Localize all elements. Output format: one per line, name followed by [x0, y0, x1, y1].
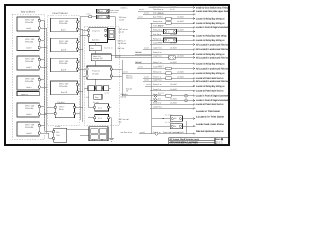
junction M5b	[102, 88, 103, 89]
inverter box M4	[86, 66, 113, 79]
svg-text:14 AWG: 14 AWG	[170, 42, 177, 45]
svg-text:Panel 1 w: Panel 1 w	[153, 75, 162, 78]
svg-text:Located in Trim basin: Located in Trim basin	[196, 115, 225, 118]
svg-text:Locate at Panel main feed xx: Locate at Panel main feed xx	[196, 90, 224, 93]
svg-text:12 AWG: 12 AWG	[170, 101, 177, 104]
drawing border frame	[5, 5, 229, 145]
svg-text:xx cbl: xx cbl	[144, 46, 149, 49]
svg-text:SPSa 80L: SPSa 80L	[25, 126, 34, 129]
wire A6+	[41, 125, 45, 127]
box M3	[91, 54, 111, 61]
svg-text:xx cbl: xx cbl	[140, 131, 145, 134]
svg-text:SBT cbl: SBT cbl	[135, 51, 142, 54]
svg-text:Dist: Dist	[91, 47, 95, 50]
svg-text:Locate in Relay Bay string xx: Locate in Relay Bay string xx	[196, 63, 225, 66]
svg-text:Locate in Trim basin: Locate in Trim basin	[196, 110, 221, 113]
svg-text:Inverter 100: Inverter 100	[93, 57, 103, 60]
svg-text:10 AWG: 10 AWG	[170, 83, 177, 86]
wire row R8	[150, 33, 227, 38]
svg-text:xx cbl: xx cbl	[144, 75, 149, 78]
terminal strip M7	[89, 127, 108, 141]
svg-text:SPSa 80L: SPSa 80L	[59, 22, 68, 25]
svg-text:Relay 6 w: Relay 6 w	[153, 37, 162, 40]
svg-text:SPSa 80L: SPSa 80L	[59, 62, 68, 65]
svg-text:SPSa 80L: SPSa 80L	[25, 80, 34, 83]
svg-text:14 AWG: 14 AWG	[177, 20, 184, 23]
relay box K1	[94, 104, 110, 111]
wire ground drop	[111, 118, 113, 138]
svg-text:Cowl F6 w: Cowl F6 w	[153, 105, 162, 108]
svg-text:bus link 2x: bus link 2x	[104, 47, 113, 50]
svg-text:Trim Sens w: Trim Sens w	[153, 8, 164, 11]
svg-text:Panel 3 w: Panel 3 w	[153, 101, 162, 104]
svg-text:Batt 3: Batt 3	[27, 66, 32, 69]
junction dot X1	[163, 118, 164, 119]
label M1 side	[118, 40, 127, 51]
wire A2+	[41, 39, 45, 41]
svg-text:AC Out 2: AC Out 2	[165, 121, 172, 124]
svg-text:Cowl F1 w: Cowl F1 w	[153, 42, 162, 45]
aux battery box C2	[52, 128, 66, 142]
module box B3	[51, 58, 79, 72]
wire M1 in1	[83, 29, 88, 31]
svg-text:Batt 5: Batt 5	[27, 113, 32, 116]
wire row R18	[143, 78, 229, 83]
wire A6-	[41, 132, 47, 134]
module box B1	[51, 18, 79, 32]
svg-text:xxx Port to xx: xxx Port to xx	[121, 131, 132, 134]
svg-text:Cowl F5 w: Cowl F5 w	[153, 78, 162, 81]
svg-text:Locate in Relay Bay string xx: Locate in Relay Bay string xx	[196, 39, 225, 42]
svg-text:Batt Mon: Batt Mon	[92, 39, 99, 42]
svg-text:Batt 1: Batt 1	[27, 27, 32, 30]
wire row R15	[137, 66, 229, 71]
svg-text:Cowl F4 w: Cowl F4 w	[153, 66, 162, 69]
wire M4 out2	[112, 75, 122, 77]
wire K1 out	[110, 106, 112, 108]
wire row R12	[135, 51, 225, 56]
module box A4	[17, 76, 41, 90]
svg-text:M4 2kW: M4 2kW	[92, 72, 99, 75]
ground	[109, 138, 114, 141]
svg-text:xx cbl: xx cbl	[144, 78, 149, 81]
svg-text:Locate main trim plate upper: Locate main trim plate upper deck	[196, 10, 229, 13]
wire row R19	[145, 83, 225, 88]
svg-text:Locate load, main strobe: Locate load, main strobe	[196, 123, 225, 126]
wire B1-	[79, 28, 83, 30]
wire A2-	[41, 47, 47, 49]
svg-text:Cbl 10a: Cbl 10a	[126, 77, 133, 80]
wire A5+	[41, 106, 45, 108]
wire row R4	[137, 16, 225, 21]
svg-text:Panel 2 w: Panel 2 w	[153, 88, 162, 91]
svg-text:14 AWG: 14 AWG	[170, 88, 177, 91]
svg-text:xx cbl: xx cbl	[119, 18, 124, 21]
svg-text:SPSa 80L: SPSa 80L	[25, 60, 34, 63]
svg-text:Relay B w: Relay B w	[153, 51, 162, 54]
junction M5a	[95, 88, 96, 89]
svg-text:Locate in Front of Engine base: Locate in Front of Engine basement	[196, 99, 228, 102]
wire aux to M7 b	[80, 135, 89, 137]
svg-text:xxx wr: xxx wr	[119, 30, 125, 33]
wire row R10	[150, 42, 229, 47]
svg-text:SPSa 80L: SPSa 80L	[59, 42, 68, 45]
svg-text:14 AWG: 14 AWG	[170, 98, 177, 101]
bus bay +	[43, 21, 45, 131]
relay box K2	[94, 114, 110, 121]
svg-text:14 AWG: 14 AWG	[170, 5, 177, 8]
svg-text:All Located in undercowl Field: All Located in undercowl Field xx	[196, 56, 229, 59]
wire row R13	[115, 55, 229, 60]
title block text	[170, 138, 224, 145]
svg-text:14 AWG: 14 AWG	[177, 70, 184, 73]
svg-text:Cowl F2 w: Cowl F2 w	[153, 46, 162, 49]
svg-text:Aux Lamp w: Aux Lamp w	[153, 11, 164, 14]
svg-text:Final Collector: Final Collector	[53, 12, 68, 15]
bus right feed 2	[151, 23, 153, 134]
svg-text:Bus Feed w: Bus Feed w	[153, 16, 163, 19]
svg-text:xx cbl: xx cbl	[146, 83, 151, 86]
wire B3+	[79, 61, 81, 63]
wire row R3	[143, 11, 195, 15]
wire A3+	[41, 59, 45, 61]
wire M3-M4	[95, 61, 97, 66]
svg-text:Locate in Relay Bay string xx: Locate in Relay Bay string xx	[196, 22, 225, 25]
svg-text:Relay E w: Relay E w	[153, 83, 162, 86]
svg-text:Cowl F3 w: Cowl F3 w	[153, 55, 162, 58]
svg-text:Batt 10: Batt 10	[61, 91, 67, 94]
svg-text:xx cbl: xx cbl	[138, 66, 143, 69]
wire T2 out	[109, 17, 115, 58]
title block	[169, 138, 229, 145]
svg-text:Relay 4b w: Relay 4b w	[153, 29, 163, 32]
svg-text:All Located in undercowl Field: All Located in undercowl Field xx	[196, 48, 229, 51]
wire aux2	[47, 133, 53, 138]
wire row R25	[139, 130, 224, 135]
wire M4-M5	[95, 79, 97, 85]
svg-text:K1 cntl: K1 cntl	[93, 101, 99, 104]
wire aux1	[44, 131, 52, 133]
svg-text:Locate in Relay Bay string xx: Locate in Relay Bay string xx	[196, 72, 225, 75]
svg-text:Batt 7: Batt 7	[61, 29, 66, 32]
wire chg out-	[76, 113, 81, 115]
svg-text:SPSa 80L: SPSa 80L	[25, 21, 34, 24]
wire A1-	[41, 27, 47, 29]
svg-text:14 AWG: 14 AWG	[170, 33, 177, 36]
wire B2+	[79, 41, 81, 43]
terminal M7 b	[101, 139, 103, 141]
wire A3-	[41, 66, 47, 68]
contactor row X2	[152, 121, 225, 129]
module box A3	[17, 56, 41, 70]
svg-text:12 AWG: 12 AWG	[177, 75, 184, 78]
group: Final Collector	[48, 12, 80, 126]
control box M1	[88, 28, 108, 43]
wire M2-M3	[95, 51, 97, 54]
dc box row M5b	[96, 86, 102, 91]
wire row R5	[150, 20, 225, 27]
svg-text:xx cbl: xx cbl	[150, 5, 155, 8]
wire chg-	[44, 113, 54, 115]
wire row R21	[122, 93, 228, 98]
wire K2 out	[110, 117, 112, 119]
contactor row X1	[152, 113, 225, 121]
wire M4 in2	[83, 75, 86, 77]
connector label	[135, 51, 142, 54]
bus right feed 1	[121, 60, 123, 96]
dc box row M5c	[104, 86, 109, 91]
box M2	[89, 45, 101, 50]
wire B1+	[79, 21, 81, 23]
svg-text:TB/TB xxx: TB/TB xxx	[118, 42, 127, 45]
svg-text:All Located in undercowl Field: All Located in undercowl Field xx	[196, 80, 229, 83]
svg-text:All Located in undercowl Field: All Located in undercowl Field xx	[196, 67, 229, 70]
wire row R16	[122, 70, 225, 75]
wire contactor drop	[185, 121, 187, 134]
wire M4 out1	[112, 68, 122, 70]
svg-text:All Located in undercowl Field: All Located in undercowl Field xx	[196, 43, 229, 46]
contactor box T2	[97, 15, 110, 19]
bus final -	[82, 29, 84, 122]
svg-text:K5: K5	[101, 10, 103, 13]
wire M1-M2	[95, 43, 97, 46]
wire A1+	[41, 20, 45, 22]
module box A6	[17, 122, 41, 136]
contactor box T1	[97, 9, 110, 13]
svg-text:Relay D w: Relay D w	[153, 70, 162, 73]
wire A5-	[41, 113, 47, 115]
svg-text:xx cbl: xx cbl	[144, 11, 149, 14]
wire row R7	[150, 29, 195, 34]
svg-text:xxx: xxx	[119, 121, 122, 123]
wire A4+	[41, 79, 45, 81]
wire fuse to T2	[92, 16, 97, 18]
wire B3-	[79, 68, 83, 70]
svg-text:12 AWG: 12 AWG	[177, 29, 184, 32]
wire chg out+	[76, 106, 83, 108]
svg-text:Data Hub Upstream collect xx: Data Hub Upstream collect xx	[196, 130, 224, 133]
svg-text:Cbl 12: Cbl 12	[121, 95, 126, 98]
svg-text:Locate in Relay Bay string xx: Locate in Relay Bay string xx	[196, 85, 225, 88]
svg-text:SBT cbl: SBT cbl	[118, 47, 125, 50]
module box B2	[51, 38, 79, 52]
svg-text:xx cbl: xx cbl	[116, 55, 121, 58]
svg-text:Batt 2: Batt 2	[27, 47, 32, 50]
svg-text:Data Hub Upstream: Data Hub Upstream	[163, 131, 180, 134]
svg-text:10 AWG: 10 AWG	[170, 46, 177, 49]
dashed enclosure inverter unit	[84, 27, 120, 126]
svg-text:xfer panel: xfer panel	[110, 11, 118, 14]
label sbt ac	[119, 118, 130, 123]
svg-text:Aux Sw w: Aux Sw w	[153, 33, 162, 36]
svg-text:Batt 8: Batt 8	[61, 49, 66, 52]
svg-text:AC 1: AC 1	[98, 106, 102, 109]
label sbt top	[119, 16, 126, 21]
aux box M1b	[108, 29, 114, 40]
wire row R24	[150, 105, 195, 109]
svg-text:Chg Batt: Chg Batt	[57, 101, 65, 104]
svg-text:Locate at Panel main feed xx: Locate at Panel main feed xx	[196, 103, 224, 106]
svg-text:Reg: Reg	[95, 96, 98, 99]
bus final +	[79, 17, 81, 120]
wire M1 in2	[80, 35, 87, 37]
svg-text:xx fus: xx fus	[86, 12, 91, 15]
svg-text:a Batt: a Batt	[55, 125, 60, 128]
svg-text:xx cbl: xx cbl	[123, 70, 128, 73]
wire row R20	[150, 88, 224, 95]
svg-text:xx cbl: xx cbl	[105, 91, 110, 94]
svg-text:SBT cbl: SBT cbl	[135, 61, 142, 64]
svg-text:7AH: 7AH	[56, 134, 60, 137]
wire M5 feed	[84, 87, 111, 89]
svg-text:SPSa 80L: SPSa 80L	[25, 40, 34, 43]
svg-text:Batt 6: Batt 6	[27, 132, 32, 135]
wire row R1	[149, 5, 229, 10]
wire M3 out	[111, 54, 151, 56]
terminal M7 a	[93, 139, 95, 141]
svg-text:14 AWG: 14 AWG	[170, 61, 177, 64]
svg-text:Bay Collector: Bay Collector	[21, 11, 35, 14]
dc box row M5a	[88, 86, 95, 91]
svg-text:12 AWG: 12 AWG	[177, 55, 184, 58]
wire row R17	[143, 75, 224, 80]
svg-text:Gear Sw w: Gear Sw w	[153, 5, 163, 8]
wire chg+	[47, 106, 54, 108]
wire M4 in1	[80, 68, 86, 70]
svg-text:Power Inv: Power Inv	[92, 69, 100, 72]
svg-text:xx cbl: xx cbl	[138, 16, 143, 19]
svg-text:Front Eng w: Front Eng w	[153, 24, 164, 27]
svg-text:80AH: 80AH	[59, 108, 64, 111]
spare slot box A4b	[17, 92, 39, 96]
svg-text:Locate in Relay Bay string xx: Locate in Relay Bay string xx	[196, 17, 225, 20]
connector label	[126, 87, 132, 92]
svg-text:Locate in Front of Engine base: Locate in Front of Engine basement	[196, 26, 228, 29]
module box A1	[17, 17, 41, 31]
wire K1 in	[88, 91, 94, 108]
svg-text:SCALE none REV 2 SHEET 1 OF: SCALE none REV 2 SHEET 1 OF 1	[170, 143, 199, 146]
group: Bay Collector	[12, 11, 45, 140]
svg-text:K6: K6	[101, 16, 103, 19]
wire row R23	[150, 101, 224, 106]
wire row R11	[143, 46, 229, 51]
svg-text:SPSa 80L: SPSa 80L	[25, 107, 34, 110]
svg-text:AC Out 1: AC Out 1	[165, 113, 172, 116]
svg-text:Locate to Relay Bay main stri: Locate to Relay Bay main string	[196, 35, 227, 38]
svg-text:Locate in Front of Engine base: Locate in Front of Engine basement	[196, 95, 228, 98]
connector label	[135, 61, 142, 64]
wire B2-	[79, 48, 83, 50]
svg-text:Rev C 1:1: Rev C 1:1	[216, 143, 224, 146]
wire K2 in	[88, 117, 94, 119]
svg-text:xx cbl: xx cbl	[139, 8, 144, 11]
label T1	[110, 9, 119, 14]
module box A2	[17, 37, 41, 51]
wire B4-	[79, 91, 83, 93]
svg-text:Relay C w: Relay C w	[153, 61, 162, 64]
fuse box FT	[89, 16, 92, 18]
connector label	[126, 75, 133, 80]
svg-text:Batt 4: Batt 4	[27, 86, 32, 89]
module box A5	[17, 103, 41, 117]
label sbt mid	[119, 28, 129, 33]
svg-text:2x 10: 2x 10	[170, 8, 175, 11]
connector label	[121, 93, 126, 98]
charge unit box C1	[54, 104, 76, 118]
svg-text:x2: x2	[126, 90, 128, 93]
wire row R22	[150, 98, 228, 103]
svg-text:WAVE a: WAVE a	[121, 6, 129, 9]
wire row R6	[150, 24, 228, 29]
svg-text:AC 2: AC 2	[98, 117, 102, 120]
svg-text:Relay 2a w: Relay 2a w	[153, 20, 163, 23]
wire row R9	[150, 37, 225, 44]
wire feed fuse	[80, 16, 88, 18]
svg-text:SPSa 80L: SPSa 80L	[59, 85, 68, 88]
svg-text:12 AWG: 12 AWG	[177, 16, 184, 19]
wire row R14	[135, 61, 225, 68]
module box B4	[51, 81, 79, 95]
wire A4-	[41, 86, 47, 88]
wire aux to M7	[67, 129, 89, 131]
svg-text:Chrg Cntl: Chrg Cntl	[92, 29, 100, 32]
wire B4+	[79, 84, 81, 86]
wire row R2	[138, 8, 229, 15]
svg-text:spare xx: spare xx	[21, 94, 28, 96]
bus bay -	[46, 28, 48, 133]
box M6	[94, 94, 102, 99]
svg-text:Batt 9: Batt 9	[61, 69, 66, 72]
